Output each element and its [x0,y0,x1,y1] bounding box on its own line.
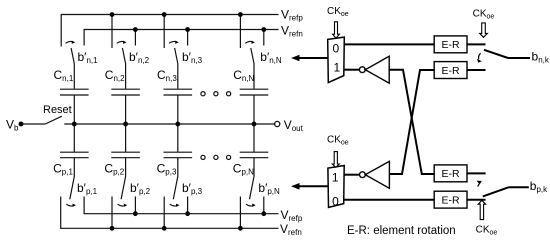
capacitor Cp,2 [111,152,140,158]
wire U1 input0 from ER1 [344,43,434,45]
inverter U4 (bottom) [360,172,366,178]
svg-text:Vrefn: Vrefn [281,23,303,38]
svg-text:b′n,2: b′n,2 [129,50,150,65]
switch Reset blade [45,116,62,124]
svg-text:b′n,3: b′n,3 [182,50,203,65]
wire V_refp top rail [61,15,278,47]
svg-text:CKoe: CKoe [476,224,498,236]
wire V_refn bottom stub colN [239,197,241,229]
svg-text:Cp,2: Cp,2 [104,162,124,177]
inverter U2 (top) [359,67,365,73]
wire V_refn stub col3 [187,30,189,46]
capacitor Cn,2 [111,89,140,95]
capacitor Cn,N [240,89,269,95]
wire V_refn stub colN [263,30,265,46]
node junction V_refp bottom col3 [185,211,190,216]
svg-text:CKoe: CKoe [473,8,495,20]
clock block arrow to bp,k switch (up) [478,200,485,219]
node junction V_refn bottom col2 [110,226,115,231]
wire U2 input from ER3 (cross diagonal) [389,70,434,174]
svg-text:Cp,3: Cp,3 [157,162,177,177]
node bus junction col1 [72,122,77,127]
clock block arrow into U3 [332,152,339,168]
svg-text:0: 0 [332,194,339,208]
svg-text:E-R: E-R [442,168,461,180]
mux U1 (top, select CKoe) [328,37,345,83]
wire V_refp bottom stub col2 [134,197,136,214]
svg-text:Vrefn: Vrefn [280,222,302,237]
svg-text:0: 0 [332,42,339,56]
wire V_refp stub col3 [163,15,165,49]
capacitor Cn,1 [60,89,89,95]
wire V_refp stub col2 [111,15,113,49]
capacitor Cp,1 [60,152,89,158]
svg-text:E-R: element rotation: E-R: element rotation [347,225,456,237]
wire output bus [64,123,274,125]
node junction V_refn bottom col3 [162,226,167,231]
node junction V_refn col3 [185,27,190,32]
clock block arrow to bn,k switch [480,23,488,37]
svg-text:Cn,1: Cn,1 [54,68,74,83]
wire V_refn bottom stub col2 [111,197,113,229]
node junction V_refp col2 [110,12,115,17]
wire Cn,3 to bus [177,95,179,124]
switch b'p,1 blade [70,158,75,200]
svg-text:Cp,N: Cp,N [233,162,254,177]
wire U1 output arrow to b'n,k [298,57,328,59]
node Vb terminal [19,122,24,127]
node ellipsis bottom [201,155,205,159]
wire bp,k input [509,186,529,188]
wire bus to Cp,2 [125,124,127,152]
switch b'n,1 actuation arrow [66,41,74,43]
wire V_refn top rail [84,30,278,46]
switch b'n,1 blade [71,48,74,89]
svg-text:CKoe: CKoe [327,6,349,18]
wire ER2 to switch contact [467,69,486,71]
switch bp,k blade [483,187,509,196]
switch bn,k blade [484,50,508,58]
node junction V_refn col2 [133,27,138,32]
svg-text:Cn,3: Cn,3 [157,68,177,83]
capacitor Cp,3 [164,152,193,158]
switch b'n,2 actuation arrow [117,41,125,43]
E-R box ER1 [434,36,467,53]
mux U3 (bottom, select CKoe) [328,166,344,208]
svg-text:b′p,N: b′p,N [258,181,280,196]
node junction V_refp bottom col2 [133,211,138,216]
wire Cn,1 to bus [73,95,75,124]
E-R box ER4 [434,191,467,208]
node bus junction colN [252,122,257,127]
E-R box ER3 [434,165,467,182]
node Vout terminal [275,121,280,126]
wire U3 input0 from ER4 [344,199,434,201]
node bus junction col3 [175,122,180,127]
node junction V_refn bottom colN [238,226,243,231]
switch b'p,3 blade [173,158,178,200]
svg-text:1: 1 [332,170,339,184]
switch b'p,3 actuation arrow [170,204,178,206]
wire U1 input1 from inverter [344,69,359,71]
node junction V_refp colN [238,12,243,17]
switch b'p,1 actuation arrow [66,204,74,206]
node bus junction col2 [123,122,128,127]
node junction V_refp col3 [162,12,167,17]
capacitor Cn,3 [164,89,193,95]
svg-text:b′p,1: b′p,1 [77,181,98,196]
svg-text:b′n,1: b′n,1 [78,50,99,65]
switch b'n,3 actuation arrow [169,41,177,43]
wire V_refn stub col2 [134,30,136,46]
clock block arrow into U1 [333,22,340,38]
wire Vb to Reset switch [21,123,45,125]
svg-text:Vrefp: Vrefp [281,208,303,223]
wire bn,k input [508,57,530,59]
wire Cn,N to bus [253,95,255,124]
switch bp,k actuation arrow [478,182,481,187]
svg-text:Reset: Reset [43,104,72,116]
svg-text:Vout: Vout [284,118,304,133]
node junction V_refp bottom colN [261,211,266,216]
capacitor Cp,N [240,152,269,158]
svg-text:1: 1 [333,61,340,75]
svg-text:bn,k: bn,k [532,49,550,64]
E-R box ER2 [434,62,467,79]
switch b'n,N actuation arrow [245,41,253,43]
svg-text:E-R: E-R [442,195,461,207]
wire V_refn bottom rail [61,197,279,229]
svg-text:Vb: Vb [6,118,19,133]
node junction V_refn colN [261,27,266,32]
switch bn,k actuation arrow [479,53,481,59]
switch b'n,N blade [251,48,254,89]
switch b'n,2 blade [122,48,125,89]
switch b'n,3 blade [175,48,178,89]
wire bus to Cp,3 [177,124,179,152]
svg-text:Cn,2: Cn,2 [105,68,125,83]
svg-text:b′n,N: b′n,N [260,50,282,65]
switch b'p,N blade [250,158,255,200]
svg-text:CKoe: CKoe [327,134,349,146]
wire V_refp bottom stub colN [263,197,265,214]
svg-text:b′p,3: b′p,3 [182,181,203,196]
wire ER3 to switch contact [467,172,486,174]
svg-text:Cp,1: Cp,1 [53,162,73,177]
wire Cn,2 to bus [125,95,127,124]
wire U3 output arrow to b'p,k [298,185,328,187]
wire U3 input1 from inverter U4 [344,174,359,176]
wire bus to Cp,1 [73,124,75,152]
switch b'p,N actuation arrow [246,204,254,206]
switch b'p,2 blade [121,158,126,200]
svg-text:bp,k: bp,k [530,179,548,194]
wire V_refp stub colN [239,15,241,49]
wire ER1 to switch contact [467,43,486,45]
node ellipsis top [201,92,205,96]
wire ER2 to bottom inverter U4 (cross diagonal) [389,70,434,174]
svg-text:E-R: E-R [442,39,461,51]
svg-text:E-R: E-R [442,65,461,77]
svg-text:b′p,2: b′p,2 [130,181,151,196]
svg-text:Cn,N: Cn,N [233,68,254,83]
wire V_refp bottom stub col3 [187,197,189,214]
wire V_refn bottom stub col3 [163,197,165,229]
wire bus to Cp,N [253,124,255,152]
wire ER4 to switch contact [467,199,486,201]
svg-text:Vrefp: Vrefp [281,8,303,23]
wire V_refp bottom rail [84,197,278,214]
switch b'p,2 actuation arrow [118,204,126,206]
